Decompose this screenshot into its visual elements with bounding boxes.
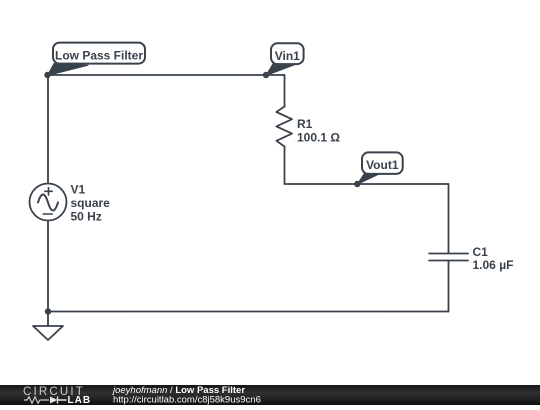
node A junction dot: [44, 72, 50, 78]
svg-text:50 Hz: 50 Hz: [71, 209, 102, 223]
wire: V1 negative terminal down to ground node: [47, 221, 49, 312]
node Vout1 junction dot: [354, 181, 360, 187]
svg-text:http://circuitlab.com/c8j58k9u: http://circuitlab.com/c8j58k9us9cn6: [113, 395, 261, 405]
ground node junction dot: [45, 308, 51, 314]
svg-text:square: square: [71, 196, 111, 210]
svg-text:V1: V1: [71, 182, 86, 196]
ground symbol: [33, 326, 63, 340]
footer bar: [0, 385, 540, 405]
svg-text:Vin1: Vin1: [275, 49, 300, 63]
wire: left vertical, node A down to V1 positive terminal: [47, 75, 49, 184]
label flag: Vout1 box: [362, 152, 403, 174]
resistor R1: [276, 107, 292, 147]
node Vin1 junction dot: [263, 72, 269, 78]
V1 minus sign: [43, 213, 52, 215]
wire: bottom return net: [48, 311, 449, 313]
CircuitLab logo: resistor-diode symbol: [24, 397, 49, 403]
svg-text:1.06 µF: 1.06 µF: [473, 258, 514, 272]
svg-text:Low Pass Filter: Low Pass Filter: [55, 49, 143, 63]
capacitor C1 top plate: [429, 253, 468, 255]
label flag: Low Pass Filter pointer: [48, 64, 89, 76]
capacitor C1 bottom plate: [429, 260, 468, 262]
voltage source V1 body: [30, 184, 67, 221]
label flag: Vout1 pointer: [357, 174, 378, 185]
wire: R1 top lead: [284, 75, 286, 107]
label flag: Vin1 pointer: [266, 64, 295, 76]
svg-text:Vout1: Vout1: [366, 158, 399, 172]
wire: Vout horizontal net: [285, 183, 449, 185]
label flag: Vin1 box: [271, 43, 304, 64]
V1 sine wave: [38, 195, 58, 211]
wire: C1 bottom lead: [448, 261, 450, 312]
label flag: Low Pass Filter box: [53, 43, 145, 64]
V1 plus sign: [45, 188, 52, 195]
wire: C1 top lead: [448, 184, 450, 253]
svg-text:100.1 Ω: 100.1 Ω: [297, 130, 340, 144]
ground stem: [47, 312, 49, 327]
svg-text:R1: R1: [297, 117, 313, 131]
wire: R1 bottom lead: [284, 147, 286, 185]
svg-text:LAB: LAB: [68, 395, 92, 405]
wire: top net, node A to R1 top corner: [48, 74, 285, 76]
